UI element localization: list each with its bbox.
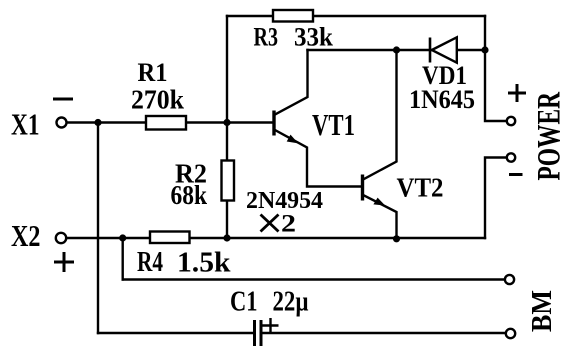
diode VD1 — [430, 37, 457, 62]
wire R2 bottom stub — [226, 201, 228, 239]
resistor R2 — [222, 161, 235, 201]
svg-text:2: 2 — [281, 211, 296, 238]
junction node R4/R2 bottom — [223, 234, 230, 241]
wire VT2 emitter — [364, 196, 397, 239]
wire top rail — [227, 15, 485, 17]
wire X2 to R4 — [66, 237, 150, 239]
wire X1 node down branch — [97, 123, 99, 334]
svg-text:X2: X2 — [11, 218, 41, 253]
terminal BM top — [505, 275, 514, 284]
svg-text:33k: 33k — [294, 23, 334, 52]
wire inner top rail (collector rail) — [308, 49, 486, 51]
junction node at X1/R1/C1 branch — [94, 119, 101, 126]
svg-text:VT1: VT1 — [312, 107, 355, 142]
polarity plus POWER — [508, 84, 526, 102]
wire R1 to VT1 base — [186, 121, 273, 123]
polarity plus below X2 — [54, 252, 74, 272]
wire left vertical from top rail to R1 node — [226, 16, 228, 123]
wire bottom rail right of C1 to BM — [262, 332, 506, 334]
wire VT2 collector — [364, 50, 397, 179]
terminal X2 — [56, 233, 66, 243]
svg-text:BM: BM — [527, 290, 558, 332]
svg-text:R1: R1 — [138, 58, 168, 87]
transistor VT1 — [274, 111, 298, 144]
wire X2 branch down to BM top rail — [121, 238, 123, 280]
wire VT1 collector — [275, 50, 308, 115]
wire VT1 emitter to VT2 base — [275, 130, 362, 187]
svg-text:68k: 68k — [171, 180, 208, 210]
polarity minus above X1 — [53, 98, 73, 101]
svg-text:22µ: 22µ — [273, 287, 309, 318]
polarity minus POWER — [509, 173, 523, 176]
svg-text:1.5k: 1.5k — [177, 248, 231, 279]
junction node X2/BM branch — [119, 234, 126, 241]
transistor VT2 — [363, 175, 386, 206]
svg-text:R4: R4 — [137, 247, 163, 278]
terminal BM bottom — [506, 329, 515, 338]
wire right vertical to plus POWER — [485, 16, 507, 121]
junction node R1/R2/top rail — [223, 119, 230, 126]
svg-text:1N645: 1N645 — [409, 85, 475, 114]
label x2 multiplier — [261, 211, 297, 238]
svg-text:POWER: POWER — [532, 91, 567, 180]
terminal POWER plus — [507, 117, 515, 125]
wire minus POWER down to bottom right corner — [485, 158, 507, 239]
capacitor C1 — [255, 318, 279, 346]
svg-text:R3: R3 — [254, 23, 279, 52]
wire R4 to right corner — [190, 237, 486, 239]
junction node VT2 emitter/bottom — [393, 235, 400, 242]
terminal X1 — [57, 118, 67, 128]
resistor R4 — [150, 232, 190, 244]
svg-text:VT2: VT2 — [397, 173, 444, 203]
svg-text:X1: X1 — [11, 106, 40, 141]
wire X1 to R1 — [67, 121, 147, 123]
resistor R3 — [273, 10, 313, 22]
wire bottom rail left of C1 — [98, 332, 253, 334]
svg-text:C1: C1 — [230, 287, 258, 318]
svg-text:270k: 270k — [131, 85, 184, 115]
junction node VT2 collector/top — [393, 46, 400, 53]
wire BM top rail — [123, 278, 505, 280]
wire R2 top stub — [226, 123, 228, 162]
junction node diode/right vertical — [481, 46, 488, 53]
terminal POWER minus — [507, 153, 515, 161]
resistor R1 — [146, 116, 186, 130]
